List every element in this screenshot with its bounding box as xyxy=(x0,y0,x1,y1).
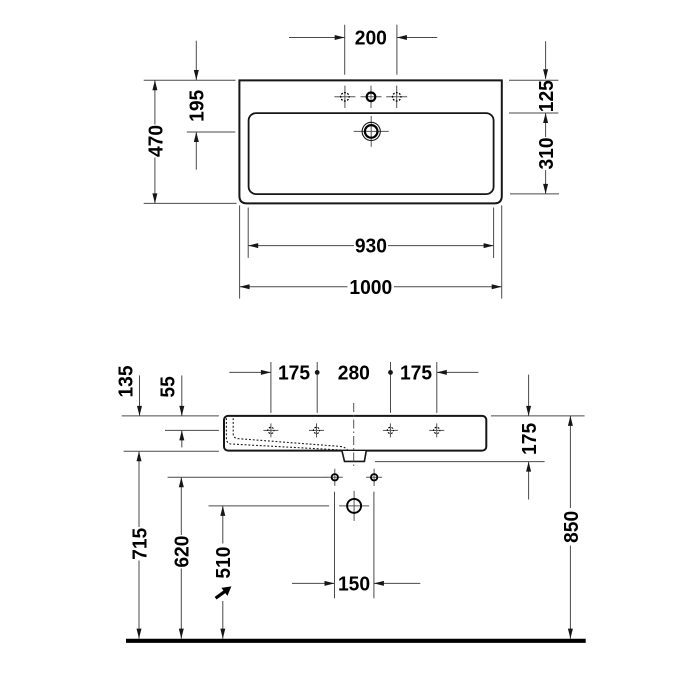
extension line: tap hole axis, left xyxy=(165,429,219,431)
dimension 150 (outlet/fixing spacing) xyxy=(292,492,420,599)
svg-text:715: 715 xyxy=(129,528,152,560)
dimension 195 (drain centre from rear) xyxy=(186,41,235,170)
svg-text:620: 620 xyxy=(171,536,194,568)
drain boss trapezoid (front) xyxy=(342,451,366,461)
svg-text:470: 470 xyxy=(145,125,168,157)
hidden basin interior, dashed (front) xyxy=(226,418,347,450)
left wall fixing hole (front) xyxy=(327,469,343,486)
washbasin front elevation outline xyxy=(224,416,486,451)
dimension 200 (tap hole spacing) xyxy=(289,25,437,75)
floor line xyxy=(126,639,586,643)
centre tap hole (plan) xyxy=(361,86,382,108)
washbasin outer outline (plan view, 1000x470) xyxy=(239,80,501,203)
front tap hole 1 (dashed) xyxy=(263,423,278,437)
basin inner rim (plan view, 930x310 rounded) xyxy=(249,113,494,194)
front tap hole 2 (dashed) xyxy=(309,423,324,437)
right wall fixing hole (front) xyxy=(366,469,382,486)
front tap hole 3 (dashed) xyxy=(383,423,398,437)
svg-text:175: 175 xyxy=(518,423,541,455)
dimension 125 (rim to inner edge) xyxy=(509,41,558,113)
extension line: rim top, right xyxy=(491,415,585,417)
adjustable-height arrow symbol xyxy=(216,586,232,598)
dimension 620 (floor to fixing holes) xyxy=(171,477,194,638)
left optional tap hole, dashed (plan) xyxy=(334,86,355,108)
extension line: drain boss bottom, right xyxy=(375,461,545,463)
dimension 930 (inner basin width) xyxy=(248,208,493,258)
dimension 850 (floor to rim) xyxy=(560,416,583,639)
svg-text:200: 200 xyxy=(355,27,387,50)
dimension 55 (rim to tap axis) xyxy=(157,375,185,447)
extension line: basin bottom, left xyxy=(124,450,219,452)
front tap hole 4 (dashed) xyxy=(429,423,444,437)
vertical centre line (dash-dot) xyxy=(353,403,355,469)
svg-text:930: 930 xyxy=(355,235,387,258)
dimension 510 (floor to outlet) xyxy=(213,506,236,639)
dimension 135 (apron height) xyxy=(115,365,142,415)
right optional tap hole, dashed (plan) xyxy=(386,86,407,108)
svg-text:175: 175 xyxy=(400,362,432,385)
dimension 175 (rim to drain boss bottom) xyxy=(518,375,541,500)
svg-text:175: 175 xyxy=(278,362,310,385)
svg-text:850: 850 xyxy=(560,511,583,543)
overflow/drain hole (plan) xyxy=(354,116,389,147)
svg-text:510: 510 xyxy=(213,547,236,579)
svg-text:135: 135 xyxy=(115,365,138,397)
dimension 470 (basin depth) xyxy=(144,80,237,203)
svg-text:310: 310 xyxy=(535,137,558,169)
extension line: fixing holes, left xyxy=(168,476,328,478)
svg-text:1000: 1000 xyxy=(349,276,392,299)
dimension 310 (inner basin depth) xyxy=(510,113,559,194)
svg-text:55: 55 xyxy=(157,376,180,397)
svg-text:150: 150 xyxy=(338,573,370,596)
extension line: rim top, left xyxy=(122,415,219,417)
svg-text:280: 280 xyxy=(338,362,370,385)
svg-text:125: 125 xyxy=(535,80,558,112)
waste outlet circle (front) xyxy=(339,491,369,521)
extension line: outlet centre, left xyxy=(209,505,330,507)
svg-text:195: 195 xyxy=(186,90,209,122)
dimension 715 (floor to basin bottom) xyxy=(129,451,152,638)
dimension 175 / 280 / 175 (tap hole spacing front) xyxy=(229,362,478,413)
dimension 1000 (overall width) xyxy=(240,205,502,299)
